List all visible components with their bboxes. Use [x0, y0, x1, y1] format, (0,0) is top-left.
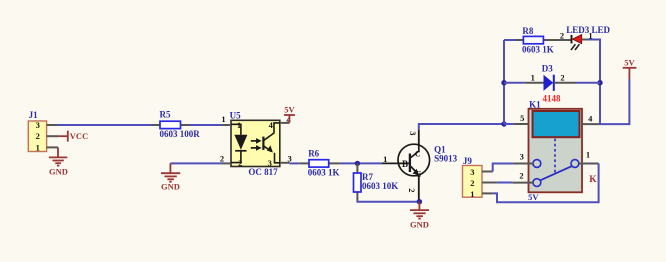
wire R5 to U5 pin1 — [190, 124, 223, 126]
svg-text:R5: R5 — [160, 110, 171, 120]
svg-text:1: 1 — [221, 114, 225, 124]
wire top branch left — [504, 39, 516, 41]
svg-text:5V: 5V — [624, 57, 635, 67]
U5 coupling arrows — [251, 138, 262, 151]
ground GND (Q1 emitter) — [410, 202, 429, 230]
svg-text:0603 1K: 0603 1K — [308, 167, 340, 177]
wire Q1 collector to relay pin5 — [419, 124, 504, 130]
svg-text:3: 3 — [408, 131, 418, 135]
U5 internal LED — [231, 124, 247, 162]
node D3 left junction — [501, 80, 506, 85]
connector J9 — [463, 156, 497, 199]
ground GND (J1 pin1) — [49, 147, 68, 176]
wire U5.3 to R6 — [289, 162, 299, 164]
svg-text:1: 1 — [383, 154, 387, 164]
svg-text:2: 2 — [560, 73, 564, 83]
svg-text:K: K — [589, 175, 597, 185]
svg-text:3: 3 — [36, 120, 40, 130]
svg-text:0603 100R: 0603 100R — [160, 129, 201, 139]
transistor Q1 — [382, 130, 458, 202]
svg-text:4: 4 — [588, 113, 593, 123]
svg-text:GND: GND — [161, 182, 180, 192]
svg-text:2: 2 — [36, 131, 40, 141]
svg-text:5V: 5V — [284, 105, 295, 115]
power 5V (U5 pin4) — [284, 105, 296, 123]
svg-text:3: 3 — [287, 153, 291, 163]
wire R6 to base node — [340, 162, 382, 164]
svg-text:LED3 LED: LED3 LED — [566, 25, 610, 35]
resistor R8 — [516, 26, 572, 54]
svg-text:3: 3 — [268, 158, 272, 168]
svg-text:2: 2 — [220, 154, 224, 164]
svg-text:VCC: VCC — [70, 131, 88, 141]
relay pin 3 — [513, 152, 533, 164]
U5 internal phototransistor — [263, 123, 280, 163]
wire J1.3 to R5 — [58, 124, 152, 126]
relay K1 — [529, 99, 598, 192]
resistor R5 — [152, 110, 201, 140]
wire left vertical riser — [503, 40, 505, 124]
svg-text:0603 10K: 0603 10K — [362, 181, 398, 191]
svg-text:OC 817: OC 817 — [248, 167, 278, 177]
node D3 right junction — [597, 80, 602, 85]
svg-text:R6: R6 — [308, 148, 319, 158]
svg-text:0603 1K: 0603 1K — [522, 45, 554, 55]
svg-text:2: 2 — [519, 171, 523, 181]
U5 pin 3 — [268, 153, 292, 168]
wire node to relay pin 5 — [504, 123, 514, 125]
svg-text:2: 2 — [407, 188, 417, 192]
svg-text:2: 2 — [470, 178, 474, 188]
relay pin 2 — [512, 171, 533, 183]
connector J1 — [28, 110, 58, 152]
svg-text:2: 2 — [560, 31, 564, 41]
svg-text:1: 1 — [470, 189, 474, 199]
svg-text:B: B — [402, 159, 408, 169]
svg-text:1: 1 — [531, 73, 535, 83]
power VCC — [58, 131, 88, 142]
svg-text:3: 3 — [520, 152, 524, 162]
relay pin 4 — [582, 113, 599, 124]
diode D3 — [525, 63, 576, 103]
U5 pin 2 — [220, 154, 243, 168]
svg-text:1: 1 — [36, 142, 40, 152]
svg-text:J1: J1 — [29, 110, 38, 120]
svg-text:GND: GND — [410, 220, 429, 230]
wire LED to right riser — [588, 39, 600, 42]
node collector junction — [501, 121, 506, 126]
svg-text:5V: 5V — [528, 192, 539, 202]
svg-text:4148: 4148 — [543, 93, 562, 103]
relay pin 5 — [514, 113, 529, 124]
wire D3 row left — [504, 82, 525, 84]
svg-text:S9013: S9013 — [434, 153, 458, 163]
svg-text:GND: GND — [49, 167, 68, 177]
svg-text:J9: J9 — [463, 156, 473, 166]
node emitter junction — [417, 199, 422, 204]
wire 5V to relay pin4 — [599, 79, 629, 124]
wire right vertical riser — [599, 40, 601, 125]
resistor R7 — [354, 163, 399, 200]
U5 pin 1 — [221, 114, 241, 130]
node base junction — [355, 161, 360, 166]
LED LED3 — [560, 25, 611, 50]
svg-text:R8: R8 — [522, 26, 533, 36]
ground GND (U5 pin2) — [161, 163, 222, 191]
wire J9.1 to relay pin1 (5V net) — [493, 164, 599, 203]
resistor R6 — [299, 148, 340, 177]
svg-text:5: 5 — [520, 113, 524, 123]
svg-text:4: 4 — [269, 120, 274, 130]
wire J9.2 to relay pin2 — [497, 182, 513, 184]
svg-text:3: 3 — [470, 167, 474, 177]
svg-text:1: 1 — [586, 150, 590, 160]
wire R7 bottom to emitter node — [357, 201, 419, 202]
wire D3 row right — [576, 82, 600, 84]
U5 pin 4 — [269, 115, 292, 130]
optocoupler U5 — [230, 111, 280, 178]
svg-text:D3: D3 — [542, 63, 553, 73]
wire J9.3 to relay pin3 — [493, 164, 514, 172]
relay pin 1 — [579, 150, 599, 164]
svg-text:C: C — [415, 150, 421, 159]
power 5V (top right) — [623, 57, 637, 79]
